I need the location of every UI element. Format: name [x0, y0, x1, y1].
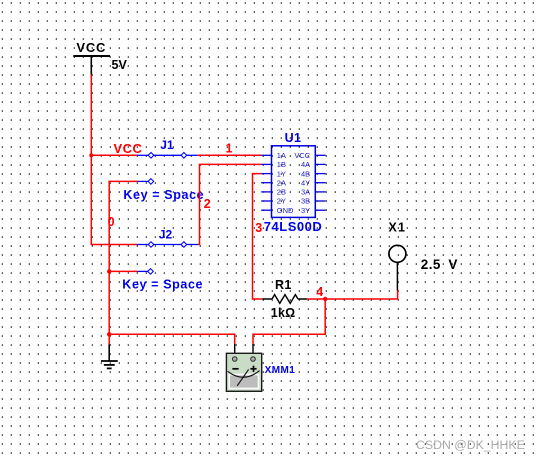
- svg-text:1B: 1B: [277, 160, 286, 169]
- svg-text:Key = Space: Key = Space: [122, 278, 203, 292]
- svg-text:3B: 3B: [301, 197, 310, 206]
- multimeter XMM1: [226, 344, 261, 391]
- wire net 3: U1 pin 1Y down to R1: [253, 174, 263, 299]
- wire net VCC: VCC symbol down to junction: [90, 75, 92, 156]
- svg-text:3Y: 3Y: [301, 206, 310, 215]
- svg-text:GND: GND: [277, 206, 294, 215]
- svg-text:VCC: VCC: [114, 141, 143, 156]
- svg-text:XMM1: XMM1: [265, 365, 296, 376]
- svg-text:0: 0: [108, 215, 115, 229]
- ground symbol: [101, 345, 118, 369]
- svg-text:U1: U1: [285, 131, 302, 145]
- svg-text:4A: 4A: [301, 160, 310, 169]
- wire net VCC: junction right to J1 pole: [91, 154, 137, 156]
- svg-text:3: 3: [255, 221, 262, 235]
- IC U1 74LS00D body and pins: [261, 146, 326, 218]
- wire net 0: branch to J2 lower throw: [109, 270, 137, 272]
- probe X1: [389, 245, 406, 290]
- junction net 0 at XMM rail: [107, 332, 111, 336]
- svg-text:2: 2: [204, 197, 211, 211]
- wire net 0: rail to XMM1 minus lead: [109, 334, 235, 345]
- svg-text:1: 1: [226, 142, 233, 156]
- svg-text:CSDN @DK_HHKE: CSDN @DK_HHKE: [416, 438, 525, 452]
- svg-text:R1: R1: [275, 278, 292, 292]
- wire net 2: J2 throw up to U1 pin 1B: [198, 164, 261, 244]
- wire net 0: down to ground: [108, 271, 110, 345]
- svg-text:2Y: 2Y: [277, 197, 286, 206]
- junction VCC/J1 branch: [89, 153, 93, 157]
- svg-text:VCC: VCC: [294, 151, 310, 160]
- svg-text:4Y: 4Y: [301, 178, 310, 187]
- svg-text:2B: 2B: [277, 188, 286, 197]
- wire net 4: junction down to XMM1 plus lead: [253, 299, 325, 345]
- svg-text:2A: 2A: [277, 178, 286, 187]
- U1 pin labels left column: [277, 151, 294, 215]
- junction net 4: [323, 297, 327, 301]
- svg-text:1Y: 1Y: [277, 169, 286, 178]
- wire net 1: J1 to U1 pin 1A: [198, 154, 261, 156]
- svg-text:V: V: [448, 257, 457, 272]
- svg-text:VCC: VCC: [76, 40, 106, 55]
- wire net 4: R1 to probe X1: [307, 290, 397, 299]
- svg-text:1A: 1A: [277, 151, 286, 160]
- switch J2: [137, 242, 198, 274]
- junction net 0 at J2 throw branch: [107, 269, 111, 273]
- svg-text:1kΩ: 1kΩ: [271, 306, 296, 320]
- svg-text:4: 4: [316, 285, 323, 299]
- resistor R1: [262, 295, 307, 304]
- wire net VCC: junction down and right to J2 pole: [91, 155, 137, 244]
- svg-text:X1: X1: [389, 221, 407, 235]
- svg-text:J1: J1: [160, 138, 174, 152]
- U1 pin labels right column: [294, 151, 310, 215]
- svg-text:2.5: 2.5: [421, 257, 441, 272]
- svg-text:Key = Space: Key = Space: [123, 188, 204, 202]
- switch J1: [137, 153, 198, 185]
- wire net 0: J1 lower throw left and down: [109, 181, 137, 271]
- svg-text:5V: 5V: [112, 58, 128, 72]
- svg-text:4B: 4B: [301, 169, 310, 178]
- power VCC1 symbol: [73, 40, 110, 75]
- svg-text:74LS00D: 74LS00D: [264, 219, 322, 234]
- svg-text:J2: J2: [159, 228, 173, 242]
- svg-text:3A: 3A: [301, 188, 310, 197]
